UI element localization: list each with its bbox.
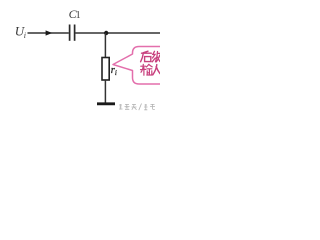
callout text 输 (hand-drawn)	[141, 64, 153, 75]
callout bubble (annotation)	[113, 47, 172, 85]
ground	[97, 102, 115, 105]
watermark (gray)	[119, 104, 155, 111]
svg-text:i: i	[115, 69, 117, 77]
capacitor C1	[70, 25, 75, 41]
wire down to resistor	[104, 33, 106, 58]
callout text 级 (hand-drawn)	[152, 51, 160, 62]
resistor ri	[102, 58, 109, 81]
callout text 后 (hand-drawn)	[141, 51, 152, 62]
wire resistor to ground	[104, 80, 106, 104]
svg-text:i: i	[24, 31, 26, 40]
wire input with arrow	[28, 32, 69, 34]
label ri	[111, 65, 117, 77]
wire top rail	[75, 32, 160, 34]
svg-text:1: 1	[76, 10, 81, 21]
node junction dot	[104, 31, 108, 35]
node Ui input label	[15, 24, 26, 40]
callout text 入 (hand-drawn)	[153, 65, 160, 75]
